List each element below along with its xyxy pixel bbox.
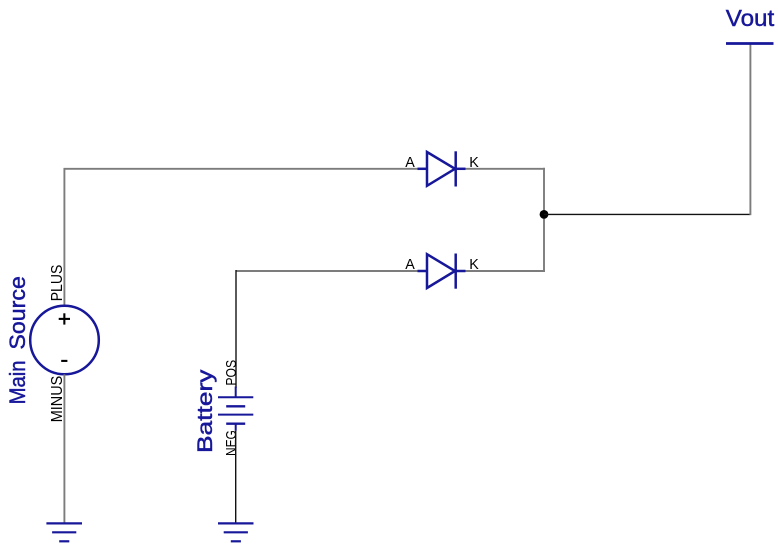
svg-text:A: A bbox=[405, 257, 415, 273]
wire: D2 cathode to right bus bbox=[466, 270, 546, 272]
junction dot bbox=[540, 210, 549, 219]
ground GND2 bbox=[218, 523, 254, 541]
battery BT1 bbox=[218, 387, 253, 431]
minus sign inside source bbox=[61, 360, 67, 362]
wire: top rail from Main Source corner to diode D1 anode bbox=[64, 169, 417, 306]
wire: output from junction to Vout column (black) bbox=[544, 213, 750, 215]
svg-text:MINUS: MINUS bbox=[49, 376, 66, 422]
svg-text:A: A bbox=[405, 155, 415, 171]
ground GND1 bbox=[46, 523, 82, 541]
svg-text:K: K bbox=[469, 257, 479, 273]
svg-text:Source: Source bbox=[5, 276, 30, 350]
svg-text:Vout: Vout bbox=[726, 5, 775, 31]
diode D2 bbox=[418, 254, 466, 289]
wire: D1 cathode to right bus bbox=[466, 168, 546, 170]
plus sign inside source bbox=[59, 313, 70, 324]
svg-text:POS: POS bbox=[223, 360, 240, 386]
wire: bottom rail from battery corner to diode D2 anode bbox=[236, 270, 418, 272]
wire: Vout vertical bbox=[749, 44, 751, 215]
svg-text:NEG: NEG bbox=[223, 430, 240, 456]
voltage source V1 circle bbox=[30, 306, 99, 375]
diode D1 bbox=[418, 151, 466, 186]
svg-text:Main: Main bbox=[5, 360, 30, 404]
svg-text:Battery: Battery bbox=[194, 369, 217, 453]
wire: battery vertical (black) bbox=[235, 270, 237, 388]
wire: source minus to ground (gray) bbox=[63, 374, 65, 522]
svg-text:K: K bbox=[469, 155, 479, 171]
svg-text:PLUS: PLUS bbox=[49, 265, 66, 302]
wire: battery to ground (black) bbox=[235, 431, 237, 523]
wire: right vertical bus between diode outputs bbox=[543, 168, 545, 272]
port Vout bar bbox=[726, 42, 774, 45]
